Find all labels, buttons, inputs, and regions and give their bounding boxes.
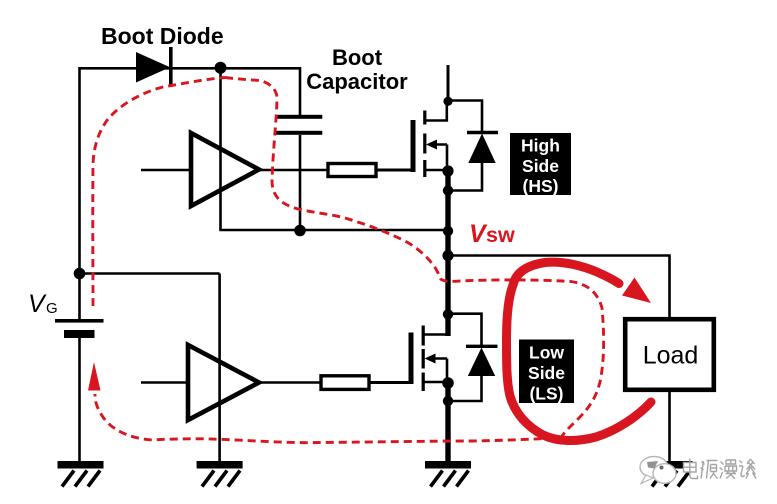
svg-text:Load: Load bbox=[643, 342, 699, 370]
svg-text:sw: sw bbox=[486, 223, 515, 247]
svg-text:G: G bbox=[46, 300, 58, 317]
svg-text:Boot: Boot bbox=[332, 45, 383, 70]
svg-text:V: V bbox=[28, 290, 47, 318]
svg-text:Boot Diode: Boot Diode bbox=[101, 23, 224, 49]
svg-text:Capacitor: Capacitor bbox=[306, 69, 408, 94]
svg-text:(HS): (HS) bbox=[523, 176, 559, 196]
svg-text:Side: Side bbox=[522, 156, 559, 176]
svg-text:Side: Side bbox=[528, 363, 565, 383]
svg-text:(LS): (LS) bbox=[529, 384, 563, 404]
svg-text:Low: Low bbox=[529, 343, 564, 363]
svg-text:High: High bbox=[521, 136, 560, 156]
